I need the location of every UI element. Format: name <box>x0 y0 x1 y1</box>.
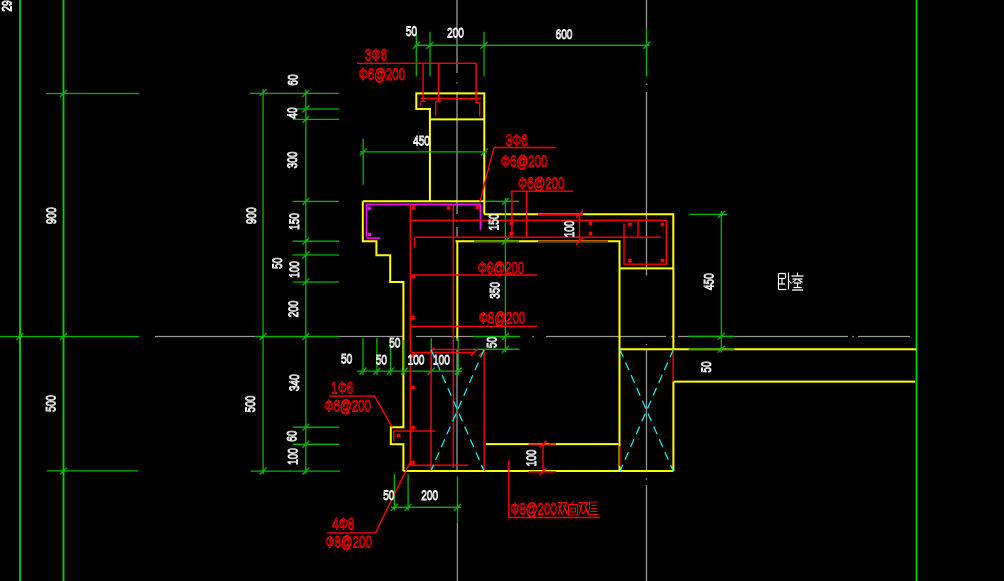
svg-text:350: 350 <box>487 282 503 299</box>
svg-text:300: 300 <box>284 151 300 168</box>
svg-text:29: 29 <box>0 0 15 11</box>
svg-text:1Φ6: 1Φ6 <box>331 380 353 399</box>
svg-text:100: 100 <box>433 352 450 368</box>
svg-text:3Φ6: 3Φ6 <box>365 47 387 66</box>
svg-text:50: 50 <box>389 335 400 351</box>
svg-text:100: 100 <box>523 449 539 466</box>
svg-text:50: 50 <box>376 352 387 368</box>
svg-text:500: 500 <box>43 395 59 412</box>
svg-text:40: 40 <box>284 107 300 118</box>
svg-text:Φ8@200: Φ8@200 <box>479 310 526 329</box>
svg-text:100: 100 <box>408 352 425 368</box>
svg-text:60: 60 <box>285 74 301 85</box>
svg-text:100: 100 <box>561 220 577 237</box>
svg-text:150: 150 <box>286 213 302 230</box>
svg-text:50: 50 <box>406 23 417 39</box>
svg-text:200: 200 <box>285 300 301 317</box>
svg-text:Φ6@200: Φ6@200 <box>478 260 525 279</box>
svg-text:200: 200 <box>447 25 464 41</box>
svg-text:Φ6@200: Φ6@200 <box>501 153 548 172</box>
svg-text:900: 900 <box>243 207 259 224</box>
svg-text:340: 340 <box>286 374 302 391</box>
svg-text:50: 50 <box>269 258 285 269</box>
svg-text:200: 200 <box>421 487 438 503</box>
svg-text:60: 60 <box>284 430 300 441</box>
svg-text:Φ6@200: Φ6@200 <box>358 66 405 85</box>
svg-text:50: 50 <box>341 351 352 367</box>
svg-text:450: 450 <box>413 133 430 149</box>
svg-text:500: 500 <box>242 395 258 412</box>
svg-text:Φ6@200: Φ6@200 <box>324 398 371 417</box>
svg-text:3Φ6: 3Φ6 <box>506 132 528 151</box>
svg-text:50: 50 <box>383 487 394 503</box>
svg-text:Φ6@200: Φ6@200 <box>518 175 565 194</box>
svg-text:900: 900 <box>43 207 59 224</box>
svg-text:4Φ8: 4Φ8 <box>332 515 354 534</box>
svg-text:450: 450 <box>701 273 717 290</box>
svg-text:50: 50 <box>484 337 500 348</box>
svg-text:Φ8@200: Φ8@200 <box>510 500 557 519</box>
svg-text:100: 100 <box>285 448 301 465</box>
svg-text:100: 100 <box>286 261 302 278</box>
svg-text:600: 600 <box>556 26 573 42</box>
svg-text:50: 50 <box>698 361 714 372</box>
svg-text:Φ8@200: Φ8@200 <box>325 534 372 553</box>
svg-text:150: 150 <box>486 213 502 230</box>
